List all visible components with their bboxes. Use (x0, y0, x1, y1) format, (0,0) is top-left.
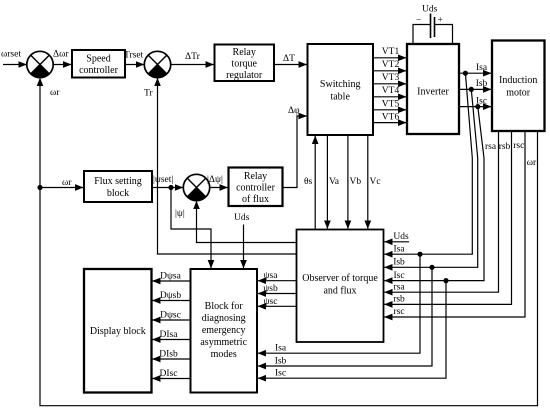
svg-text:DIsc: DIsc (160, 369, 178, 379)
svg-text:−: − (416, 16, 421, 26)
svg-text:Inverter: Inverter (417, 87, 449, 98)
svg-text:Tr: Tr (144, 89, 153, 99)
svg-text:modes: modes (211, 349, 237, 360)
svg-text:Relay: Relay (233, 47, 256, 58)
svg-text:ωr: ωr (62, 178, 72, 188)
svg-text:|Δψ|: |Δψ| (207, 175, 223, 185)
svg-text:motor: motor (506, 88, 531, 99)
svg-text:Display block: Display block (90, 326, 146, 337)
svg-text:Isc: Isc (275, 369, 286, 379)
svg-text:and flux: and flux (323, 286, 356, 297)
svg-text:Induction: Induction (499, 75, 537, 86)
svg-text:ΔTr: ΔTr (185, 52, 201, 62)
svg-text:DIsb: DIsb (159, 349, 178, 359)
svg-text:Va: Va (329, 177, 340, 187)
svg-text:regulator: regulator (226, 70, 263, 81)
svg-text:Relay: Relay (244, 171, 267, 182)
svg-text:VT5: VT5 (382, 99, 400, 109)
svg-text:θs: θs (304, 177, 313, 187)
svg-text:Isa: Isa (275, 344, 287, 354)
svg-text:Dψsb: Dψsb (160, 291, 182, 301)
svg-text:Flux setting: Flux setting (94, 176, 142, 187)
svg-text:DIsa: DIsa (160, 330, 179, 340)
svg-text:asymmetric: asymmetric (200, 337, 247, 348)
svg-text:Isa: Isa (393, 244, 405, 254)
svg-text:rsb: rsb (393, 295, 405, 305)
svg-text:Δωr: Δωr (53, 50, 69, 60)
svg-text:ψsa: ψsa (264, 271, 279, 281)
svg-text:table: table (330, 92, 350, 103)
svg-text:VT4: VT4 (382, 86, 400, 96)
svg-text:rsa: rsa (393, 282, 405, 292)
svg-text:rsa: rsa (485, 142, 497, 152)
svg-text:ωr: ωr (50, 88, 60, 98)
svg-text:Isb: Isb (275, 356, 287, 366)
svg-text:ψsc: ψsc (264, 297, 278, 307)
svg-text:|ψset|: |ψset| (153, 175, 173, 185)
svg-text:VT2: VT2 (382, 60, 400, 70)
svg-text:Isa: Isa (476, 63, 488, 73)
svg-text:Trset: Trset (124, 51, 144, 61)
svg-text:VT6: VT6 (382, 112, 400, 122)
svg-text:VT1: VT1 (382, 47, 400, 57)
svg-text:rsc: rsc (393, 307, 404, 317)
svg-text:Dψsc: Dψsc (160, 310, 181, 320)
svg-text:Isb: Isb (393, 258, 405, 268)
svg-text:Switching: Switching (320, 79, 361, 90)
svg-text:Observer of torque: Observer of torque (302, 273, 378, 284)
svg-text:Δφ: Δφ (288, 106, 300, 116)
svg-text:VT3: VT3 (382, 73, 400, 83)
svg-text:ψsb: ψsb (263, 284, 278, 294)
svg-text:ΔT: ΔT (283, 54, 295, 64)
svg-text:Isc: Isc (476, 96, 487, 106)
svg-text:Isc: Isc (393, 271, 404, 281)
svg-text:Uds: Uds (234, 213, 250, 223)
svg-text:Uds: Uds (393, 232, 409, 242)
svg-text:block: block (107, 188, 129, 199)
svg-text:|ψ|: |ψ| (175, 209, 185, 219)
svg-text:rsb: rsb (499, 142, 511, 152)
svg-text:Speed: Speed (86, 54, 110, 65)
svg-text:controller: controller (79, 65, 119, 76)
svg-text:Isb: Isb (476, 79, 488, 89)
svg-text:Dψsa: Dψsa (160, 271, 182, 281)
svg-text:Vc: Vc (370, 177, 381, 187)
svg-text:controller: controller (236, 183, 276, 194)
svg-text:Vb: Vb (350, 177, 362, 187)
svg-text:torque: torque (231, 59, 257, 70)
svg-text:Block for: Block for (205, 301, 244, 312)
svg-text:of flux: of flux (242, 194, 269, 205)
svg-text:diagnosing: diagnosing (202, 313, 246, 324)
svg-text:emergency: emergency (202, 325, 246, 336)
svg-text:ωrset: ωrset (1, 50, 21, 60)
svg-text:+: + (438, 16, 443, 26)
svg-text:Uds: Uds (422, 5, 438, 15)
svg-text:ωr: ωr (527, 158, 537, 168)
svg-text:rsc: rsc (513, 141, 524, 151)
